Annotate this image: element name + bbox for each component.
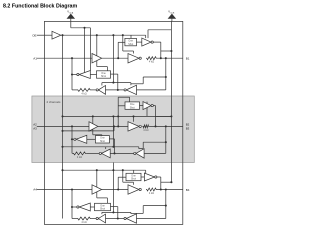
node B rail tap buffer3 feed (165, 205, 167, 207)
wire A rail to res2 (72, 218, 77, 220)
wire OS2 to accel2 (87, 138, 96, 140)
wire Vccb link (161, 181, 172, 183)
svg-text:4 kΩ: 4 kΩ (77, 156, 82, 159)
buffer output stage B-to-A (102, 149, 111, 158)
wire buffer3 feed h1 (143, 76, 166, 78)
wire buffer3 feed h2 (139, 148, 143, 150)
svg-text:4 kΩ: 4 kΩ (143, 129, 148, 132)
node OE lower junction (112, 146, 114, 148)
accelerator accel1 (144, 173, 154, 181)
svg-text:4 kΩ: 4 kΩ (149, 192, 154, 195)
wire N1 riser (117, 177, 119, 189)
svg-text:A3: A3 (33, 126, 37, 130)
wire Vccb link (161, 50, 172, 52)
wire riser top into one-shot1 (129, 97, 131, 102)
wire B pin (157, 189, 183, 191)
node B rail top (165, 57, 167, 59)
wire enable buffer1 and one-shot2 (96, 170, 98, 198)
node OE lower tap (112, 169, 114, 171)
svg-text:B4: B4 (186, 188, 190, 192)
node OE lower tap (112, 34, 114, 36)
one-shot OS1 1 (125, 38, 137, 45)
wire A rail vertical (71, 58, 73, 90)
node enable buffer2 (122, 34, 124, 36)
wire enable accel1 (146, 102, 148, 117)
bubble accel2 (74, 138, 76, 140)
wire N2 riser (117, 207, 119, 219)
wire accel2 out (72, 74, 77, 76)
one-shot OS2 4 (95, 203, 111, 210)
resistor 4k A-to-B (146, 188, 157, 191)
buffer OE input (52, 31, 61, 39)
wire buffer3 feed h1 (143, 205, 166, 207)
wire OE into one-shot1 top (133, 170, 135, 173)
power symbol VCCA (67, 14, 74, 18)
wire enable buffer3 (130, 212, 132, 213)
bubble buffer4 (99, 152, 101, 154)
bubble buffer2 (139, 125, 141, 127)
wire enable buffer4 (105, 147, 107, 149)
wire enable buffer1 and one-shot2 (92, 116, 94, 134)
svg-text:A1: A1 (33, 56, 37, 60)
accelerator accel2 (79, 203, 90, 211)
wire one-shot2 enable h (93, 134, 102, 136)
wire N2 (106, 218, 125, 220)
svg-text:Shot: Shot (128, 43, 133, 46)
wire enable buffer2 drop (133, 116, 135, 121)
node A rail top (71, 125, 73, 127)
wire accel2 out (72, 138, 74, 140)
buffer output stage B-to-A (98, 214, 105, 223)
accelerator accel1 (143, 102, 151, 110)
bubble buffer4 (96, 89, 98, 91)
wire enable buffer2 drop (133, 182, 135, 185)
IC outline box (44, 21, 182, 224)
wire B rail (165, 126, 167, 153)
accelerator accel2 (79, 71, 90, 79)
node VCCA rail (83, 27, 85, 29)
resistor 4k B-to-A (77, 217, 91, 220)
wire enable buffer2 h (133, 115, 135, 117)
wire one-shot2 input (109, 138, 114, 140)
svg-text:B1: B1 (186, 57, 190, 61)
svg-text:OE: OE (32, 33, 36, 37)
wire OS2 to accel2 (90, 74, 96, 76)
buffer output stage A-to-B (128, 54, 139, 63)
buffer input stage B-to-A (126, 214, 136, 223)
wire one-shot1 input (118, 176, 126, 178)
svg-text:2 channels: 2 channels (47, 100, 62, 104)
wire enable buffer2 v (122, 170, 124, 182)
wire B rail (165, 190, 167, 219)
one-shot OS2 2/3 (95, 136, 109, 143)
node accel1-B (160, 188, 162, 190)
bubble accel1 (151, 41, 153, 43)
wire B to buffer3 (137, 89, 166, 91)
wire enable line lower (63, 146, 139, 148)
node accel1-B (154, 125, 156, 127)
node Vccb link (170, 50, 172, 52)
wire enable buffer4 (101, 212, 103, 214)
wire accel1 drop (155, 106, 157, 127)
bubble accel2 (77, 206, 79, 208)
bubble buffer3 (124, 89, 126, 91)
node N1 (117, 57, 119, 59)
svg-text:Shot: Shot (130, 106, 135, 109)
wire enable buffer3 (138, 147, 140, 149)
wire OS1 to accel1 (141, 176, 144, 178)
wire VCCA drop2 to accel2 (89, 28, 91, 71)
svg-text:Shot: Shot (131, 178, 136, 181)
wire one-shot1 input (118, 41, 125, 43)
bubble buffer3 (124, 217, 126, 219)
node N2 (117, 217, 119, 219)
buffer input stage B-to-A (136, 149, 144, 158)
node B rail tap buffer3 feed (165, 76, 167, 78)
wire res2 to buffer4 (91, 218, 96, 220)
wire OE pin (37, 34, 52, 36)
node Vccb link (170, 181, 172, 183)
wire A rail vertical (71, 126, 73, 153)
buffer input stage A-to-B (92, 54, 102, 63)
wire accel2 out (72, 206, 77, 208)
wire accel1 out (153, 41, 161, 43)
wire one-shot2 enable drop (106, 198, 108, 203)
wire A input (37, 189, 92, 191)
wire N1 (102, 189, 128, 191)
bubble buffer2 (139, 57, 141, 59)
wire N2 (110, 152, 134, 154)
node aux gray (61, 130, 63, 132)
buffer input stage B-to-A (126, 85, 136, 94)
node aux riser gray (113, 125, 115, 127)
wire N2 (106, 89, 125, 91)
one-shot OS1 2/3 (125, 102, 140, 109)
bubble accel1 (155, 176, 157, 178)
wire buffer3 feed v (142, 77, 144, 84)
wire top rail drop (147, 30, 149, 38)
wire A rail vertical (71, 190, 73, 219)
svg-text:4 kΩ: 4 kΩ (81, 92, 86, 95)
node OE lower junction (112, 211, 114, 213)
bubble buffer4 (96, 217, 98, 219)
wire OE into one-shot1 top (130, 35, 132, 38)
wire OS1 to accel1 (137, 41, 142, 43)
wire one-shot2 enable h (97, 66, 108, 68)
wire one-shot2 enable drop (101, 134, 103, 137)
wire enable line lower (102, 211, 131, 213)
wire N1 (102, 57, 128, 59)
wire enable buffer2 v (133, 115, 135, 117)
wire auxiliary enable gray cell (63, 130, 115, 132)
wire enable buffer2 v (122, 35, 124, 51)
bubble buffer2 (139, 188, 141, 190)
buffer input stage A-to-B (89, 122, 98, 131)
wire enable buffer2 h (123, 50, 134, 52)
wire VCCA rail (71, 27, 91, 29)
node B rail tap buffer3 feed (165, 141, 167, 143)
wire res2 to buffer4 (86, 152, 99, 154)
svg-text:A4: A4 (33, 188, 37, 192)
node N1 on feed line (117, 115, 119, 117)
svg-text:Shot: Shot (101, 75, 106, 78)
wire N1 (98, 125, 128, 127)
wire one-shot2 input (111, 206, 118, 208)
wire enable buffer4 (101, 83, 103, 86)
wire OS2 to accel2 (90, 206, 94, 208)
svg-text:Shot: Shot (100, 140, 105, 143)
wire OE lower vertical (112, 35, 114, 82)
shaded region 2 channels (32, 96, 194, 163)
wire OE feed 2/3 (63, 115, 172, 117)
wire res2 to buffer4 (91, 89, 96, 91)
wire B pin (157, 57, 183, 59)
resistor 4k B-to-A (77, 88, 91, 91)
wire A rail to res2 (72, 89, 77, 91)
node N2 (117, 89, 119, 91)
node enable buffer1 (96, 34, 98, 36)
wire OE lower vertical (112, 116, 114, 146)
wire enable accel1 (145, 170, 147, 173)
wire accel1 drop (160, 42, 162, 58)
wire OS1 to accel1 (140, 105, 144, 107)
buffer input stage A-to-B (92, 185, 102, 194)
wire one-shot2 enable h (97, 197, 108, 199)
power symbol VCCB (168, 14, 175, 18)
node accel2-A (71, 138, 73, 140)
wire one-shot1 input (118, 105, 125, 107)
resistor 4k A-to-B (146, 57, 157, 60)
wire enable accel1 (145, 35, 147, 38)
buffer output stage A-to-B (128, 122, 139, 131)
wire B to buffer3 (144, 152, 166, 154)
node accel1-B (160, 57, 162, 59)
wire VCCA drop to accel2 (84, 28, 86, 73)
wire enable buffer2 drop (133, 51, 135, 54)
wire accel1 out (153, 105, 155, 107)
wire N1 riser (117, 42, 119, 58)
buffer output stage B-to-A (98, 86, 105, 95)
wire buffer3 feed h2 (131, 83, 143, 85)
svg-text:Shot: Shot (100, 208, 105, 211)
wire OE lower vertical (112, 163, 114, 213)
node accel2-A (71, 206, 73, 208)
bubble accel2 (77, 73, 79, 75)
wire B rail (165, 58, 167, 90)
wire enable buffer1 and one-shot2 (96, 35, 98, 66)
wire buffer3 feed v (142, 142, 144, 148)
OE distribution rail (62, 35, 64, 218)
node enable buffer2 (132, 115, 134, 117)
node N1 (117, 188, 119, 190)
wire A input (37, 57, 92, 59)
bubble accel1 (151, 105, 153, 107)
node enable buffer1 (92, 115, 94, 117)
wire Vccb link (156, 115, 172, 117)
svg-text:8.2 Functional Block Diagram: 8.2 Functional Block Diagram (3, 4, 77, 10)
wire OE line (61, 34, 146, 36)
accelerator accel1 (142, 38, 151, 46)
wire riser top link (118, 96, 129, 98)
svg-text:B3: B3 (186, 127, 190, 131)
node Vccb link (170, 115, 172, 117)
node OE lower junction (112, 82, 114, 84)
wire A rail to res2 (71, 152, 74, 154)
wire VCCB rail (170, 21, 172, 182)
wire enable buffer3 (130, 83, 132, 86)
accelerator accel2 (76, 135, 87, 143)
wire VCCB stem (171, 18, 173, 21)
node OE lower tap (112, 115, 114, 117)
wire B to buffer3 (137, 218, 166, 220)
wire one-shot2 enable drop (106, 67, 108, 71)
node A rail top (71, 188, 73, 190)
bubble buffer3 (134, 152, 136, 154)
node B rail top (165, 125, 167, 127)
wire VCCA stem (70, 18, 72, 27)
node A rail top (71, 57, 73, 59)
one-shot OS1 4 (126, 173, 141, 180)
svg-text:4 kΩ: 4 kΩ (149, 61, 154, 64)
resistor 4k A-to-B (142, 125, 149, 128)
node OE rail tap 2/3 (61, 115, 63, 117)
wire B pin (149, 125, 182, 127)
buffer output stage A-to-B (128, 185, 139, 194)
one-shot OS2 1 (97, 71, 111, 78)
node accel2-A (71, 73, 73, 75)
wire N2 riser (114, 139, 116, 154)
wire buffer3 feed h2 (131, 212, 143, 214)
wire accel1 out (157, 176, 161, 178)
wire OE feed 4 (63, 169, 146, 171)
wire accel1 drop (160, 177, 162, 190)
node en2 gray (61, 146, 63, 148)
node OE rail junction (61, 34, 63, 36)
wire aux riser gray (113, 126, 115, 130)
node B rail top (165, 188, 167, 190)
node N2 (113, 152, 115, 154)
wire top rail (148, 29, 171, 31)
wire one-shot2 input (111, 73, 118, 75)
wire enable line lower (102, 82, 131, 84)
node enable buffer1 (96, 169, 98, 171)
resistor 4k B-to-A (73, 152, 86, 155)
wire buffer3 feed v (142, 206, 144, 214)
wire enable buffer2 h (123, 181, 134, 183)
wire A input (37, 125, 89, 127)
node N1 (117, 125, 119, 127)
node OE rail tap 4 (61, 169, 63, 171)
wire buffer3 feed h1 (143, 141, 166, 143)
svg-text:4 kΩ: 4 kΩ (81, 221, 86, 224)
wire N1 riser (117, 97, 119, 126)
wire N2 riser (117, 74, 119, 90)
node enable buffer2 (122, 169, 124, 171)
